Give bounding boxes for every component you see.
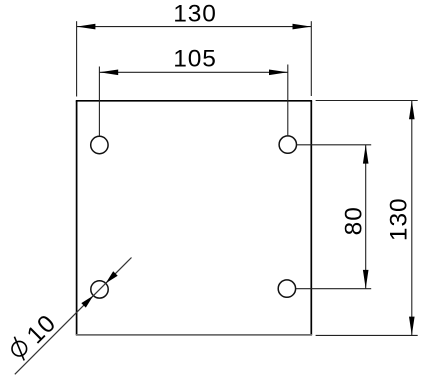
- dimension line 130 top: [77, 26, 312, 28]
- arrow top of 130 right: [409, 101, 415, 120]
- svg-text:130: 130: [385, 198, 412, 242]
- dimension line 130 right: [411, 101, 413, 336]
- diameter symbol slash of Ø10 label: [14, 337, 24, 361]
- extension line bottom-right hole (80 dim): [296, 288, 372, 290]
- leader line for hole diameter: [15, 258, 132, 375]
- arrow left of 130 top: [77, 24, 96, 30]
- hole bottom-right: [278, 280, 295, 297]
- svg-text:80: 80: [340, 206, 367, 235]
- extension line left hole column (105 dim): [98, 67, 100, 137]
- leader arrow upper-right (points to circle): [106, 271, 118, 283]
- plate outline bottom edge: [76, 334, 312, 336]
- diameter symbol circle of Ø10 label: [12, 341, 27, 356]
- extension line right hole column (105 dim): [287, 65, 289, 136]
- hole top-left: [91, 136, 108, 153]
- arrow left of 105: [99, 70, 118, 76]
- leader arrow lower-left (points to circle): [81, 296, 93, 308]
- extension line plate top edge (right 130 dim): [316, 100, 418, 102]
- extension line left plate edge (top 130 dim): [76, 21, 78, 96]
- plate outline top edge: [76, 100, 312, 102]
- svg-text:105: 105: [173, 46, 217, 73]
- arrow bottom of 80: [363, 270, 369, 289]
- extension line top-right hole (80 dim): [297, 144, 372, 146]
- hole top-right: [279, 136, 296, 153]
- plate outline left edge: [76, 101, 78, 335]
- dimension line 105: [99, 71, 287, 73]
- arrow bottom of 130 right: [409, 317, 415, 336]
- arrow right of 105: [269, 70, 288, 76]
- arrow right of 130 top: [293, 24, 312, 30]
- plate outline right edge: [310, 101, 312, 335]
- dimension line 80: [365, 145, 367, 289]
- extension line plate bottom edge (right 130 dim): [316, 334, 418, 336]
- hole bottom-left: [91, 281, 108, 298]
- extension line right plate edge (top 130 dim): [310, 21, 312, 96]
- arrow top of 80: [363, 145, 369, 164]
- svg-text:130: 130: [173, 0, 217, 27]
